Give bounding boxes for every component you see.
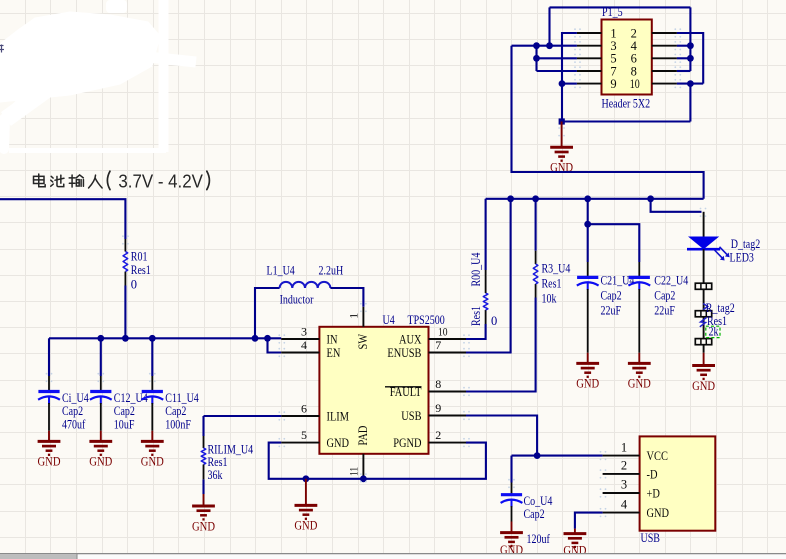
- wire ILIM: [204, 415, 282, 417]
- wire inductor right lead to SW: [330, 288, 363, 307]
- svg-text:USB: USB: [641, 531, 661, 545]
- wire C11_U4 vertical: [151, 338, 153, 376]
- node upper bus junctions: [507, 195, 514, 202]
- wire AUX to R00_U4: [466, 324, 486, 339]
- svg-text:3.7V - 4.2V: 3.7V - 4.2V: [118, 171, 203, 192]
- wire pin4 EN pin: [281, 352, 319, 354]
- op-amp U1 : IC U4 TPS2500 body: [319, 327, 428, 454]
- wire battery input net: [0, 199, 125, 239]
- capacitor Ci_U4 labels: [62, 391, 89, 432]
- capacitor C11_U4 plates: [141, 392, 163, 405]
- ground USB: [563, 534, 586, 558]
- wire header row10: [677, 83, 703, 85]
- wire C12_U4 vertical: [100, 338, 102, 376]
- wire header rows 3-5-7 riser: [535, 46, 537, 71]
- svg-text:5: 5: [301, 428, 307, 442]
- wire LED anode lead: [703, 212, 705, 237]
- svg-text:Cap2: Cap2: [165, 404, 186, 418]
- wire USB gnd: [575, 513, 603, 529]
- node pin end grid markers: [46, 28, 707, 517]
- resistor R01: [123, 250, 151, 292]
- svg-text:Cap2: Cap2: [114, 404, 135, 418]
- svg-text:R3_U4: R3_U4: [542, 261, 571, 275]
- ground C11_U4: [141, 441, 164, 468]
- svg-text:Res1: Res1: [208, 455, 228, 469]
- svg-text:GND: GND: [294, 519, 317, 533]
- svg-text:120uf: 120uf: [527, 532, 551, 546]
- svg-text:2.2uH: 2.2uH: [319, 264, 344, 278]
- svg-text:470uf: 470uf: [62, 418, 86, 432]
- svg-text:Cap2: Cap2: [524, 507, 545, 521]
- wire C22 link: [588, 224, 640, 262]
- wire pin2 PGND pin: [429, 442, 467, 444]
- svg-text:100nF: 100nF: [165, 418, 191, 432]
- svg-text:SW: SW: [355, 333, 370, 349]
- ground C22_U4: [628, 363, 651, 390]
- scrollbar strip: [0, 554, 786, 559]
- capacitor C22_U4 plates: [628, 277, 650, 290]
- svg-text:R01: R01: [131, 250, 148, 264]
- wire USB net: [466, 416, 537, 456]
- wire R00_U4 to upper bus: [485, 199, 487, 270]
- svg-text:GND: GND: [628, 377, 651, 391]
- svg-text:Res1: Res1: [542, 276, 562, 290]
- resistor R3_U4: [533, 261, 571, 305]
- connector USB body: [640, 436, 716, 530]
- capacitor Co_U4 labels: [524, 494, 553, 546]
- wire header row7: [537, 70, 577, 72]
- erased white-out scribble: [0, 0, 196, 152]
- wire header row6: [677, 57, 691, 59]
- svg-text:Co_U4: Co_U4: [524, 494, 553, 508]
- wire upper bus: [486, 198, 704, 200]
- ground IC: [294, 505, 317, 532]
- svg-text:Inductor: Inductor: [280, 293, 315, 307]
- svg-text:9: 9: [610, 77, 616, 91]
- wire R01 lower lead to bus: [124, 286, 126, 339]
- svg-text:0: 0: [491, 314, 497, 328]
- svg-text:EN: EN: [327, 345, 341, 360]
- svg-text:0: 0: [131, 278, 137, 292]
- svg-text:6: 6: [301, 401, 307, 415]
- capacitor Co_U4 plates: [501, 495, 523, 508]
- svg-text:2: 2: [435, 428, 441, 442]
- wire GND-PGND net: [269, 443, 486, 479]
- wire R_tag2 to gnd: [703, 345, 705, 353]
- capacitor C12_U4 labels: [114, 391, 148, 432]
- wire header row3 to right bus: [512, 46, 704, 199]
- svg-text:GND: GND: [692, 379, 715, 393]
- label header pin numbers: [610, 26, 639, 91]
- wire FAULT riser: [466, 298, 536, 392]
- svg-text:Ci_U4: Ci_U4: [62, 391, 89, 405]
- wire header row3: [512, 45, 577, 47]
- svg-text:10uF: 10uF: [114, 418, 135, 432]
- wire EN drop: [268, 338, 282, 352]
- wire pin11 PAD pin: [362, 454, 364, 479]
- wire pin3 IN pin: [281, 338, 319, 340]
- svg-text:3: 3: [301, 324, 307, 338]
- svg-text:PAD: PAD: [355, 426, 370, 446]
- label USB pin names: [647, 448, 670, 520]
- wire header pin1: [562, 33, 577, 122]
- svg-text:36k: 36k: [208, 468, 224, 482]
- svg-text:1: 1: [621, 440, 627, 454]
- wire header row4: [677, 45, 691, 47]
- wire USB pins: [603, 455, 640, 457]
- svg-text:L1_U4: L1_U4: [267, 264, 296, 278]
- svg-text:Header 5X2: Header 5X2: [602, 96, 651, 110]
- svg-text:4: 4: [301, 338, 307, 352]
- wire pin6 ILIM pin: [281, 415, 319, 417]
- ground C21_U4: [576, 363, 599, 390]
- inductor L1_U4: [267, 264, 344, 307]
- svg-text:8: 8: [435, 377, 441, 391]
- wire inductor left lead: [255, 288, 280, 338]
- svg-text:GND: GND: [576, 377, 599, 391]
- wire RILIM drop: [202, 416, 204, 436]
- node gnd net junctions: [303, 475, 310, 482]
- wire pin1 SW pin: [362, 307, 364, 327]
- capacitor C12_U4 plates: [90, 392, 112, 405]
- svg-text:22uF: 22uF: [654, 304, 675, 318]
- svg-text:GND: GND: [141, 455, 164, 469]
- wire pin5 GND pin: [281, 442, 319, 444]
- capacitor Ci_U4 plates: [38, 392, 60, 405]
- wire header gnd collector: [689, 84, 691, 122]
- svg-text:U4: U4: [383, 313, 396, 327]
- resistor R00_U4: [469, 252, 497, 328]
- wire header pin2 riser: [677, 33, 703, 84]
- ground C12_U4: [89, 441, 112, 468]
- label U4 TPS2500: [383, 313, 445, 327]
- wire header row9: [562, 83, 577, 85]
- svg-text:3: 3: [621, 478, 627, 492]
- svg-text:Cap2: Cap2: [62, 404, 83, 418]
- wire header left pins: [577, 32, 602, 34]
- ground RILIM: [192, 506, 215, 533]
- wire header right riser pins 4-6-8: [689, 7, 691, 71]
- wire header row8: [677, 70, 691, 72]
- wire Co_U4 drop: [510, 456, 512, 483]
- resistor R_tag2 (box style): [695, 283, 734, 345]
- capacitor C21_U4 labels: [601, 274, 635, 318]
- ground header: [550, 147, 573, 174]
- svg-text:ILIM: ILIM: [327, 408, 350, 423]
- svg-text:2: 2: [621, 459, 627, 473]
- wire LED cathode to R_tag2: [703, 249, 705, 283]
- svg-text:GND: GND: [192, 519, 215, 533]
- node bus junctions: [97, 335, 104, 342]
- svg-text:R00_U4: R00_U4: [469, 252, 483, 286]
- svg-text:C22_U4: C22_U4: [654, 274, 688, 288]
- caption battery input 3.7V-4.2V: [34, 171, 210, 189]
- node C21/C22 tee: [584, 221, 591, 228]
- svg-text:1: 1: [347, 313, 361, 319]
- svg-text:GND: GND: [327, 435, 350, 450]
- svg-text:Res1: Res1: [131, 263, 151, 277]
- wire pin7 ENUSB pin: [429, 352, 467, 354]
- connector P1_5 Header 5X2 body: [602, 20, 652, 95]
- svg-text:R_tag2: R_tag2: [706, 301, 735, 315]
- svg-text:VCC: VCC: [647, 448, 668, 463]
- wire header row5: [537, 57, 577, 59]
- svg-text:C11_U4: C11_U4: [165, 391, 199, 405]
- ground Ci_U4: [38, 441, 61, 468]
- LED D_tag2 LED3: [687, 237, 760, 265]
- wire ENUSB riser: [466, 199, 511, 353]
- svg-text:GND: GND: [38, 455, 61, 469]
- svg-text:11: 11: [347, 467, 361, 476]
- svg-text:USB: USB: [401, 408, 421, 423]
- capacitor C21_U4 plates: [577, 277, 599, 290]
- svg-text:4: 4: [621, 497, 628, 511]
- svg-text:+D: +D: [647, 486, 660, 501]
- svg-text:Res1: Res1: [469, 306, 483, 326]
- svg-text:22uF: 22uF: [601, 304, 622, 318]
- svg-text:-D: -D: [647, 466, 658, 481]
- svg-text:Cap2: Cap2: [654, 289, 675, 303]
- svg-text:9: 9: [435, 401, 441, 415]
- wire pin10 AUX pin: [429, 338, 467, 340]
- resistor RILIM_U4: [201, 443, 253, 482]
- wire header top bus: [550, 6, 691, 8]
- wire LED jog: [651, 199, 702, 212]
- wire pin8 FAULT pin: [429, 391, 467, 393]
- wire pin9 USB pin: [429, 415, 467, 417]
- svg-text:LED3: LED3: [730, 251, 754, 265]
- capacitor C11_U4 labels: [165, 391, 199, 432]
- capacitor C22_U4 labels: [654, 274, 688, 318]
- ground Co_U4: [500, 533, 523, 558]
- node header gnd junction: [559, 118, 565, 124]
- svg-text:GND: GND: [647, 505, 670, 520]
- wire header right pins: [652, 32, 677, 34]
- wire C21 drop: [587, 199, 589, 262]
- svg-text:ENUSB: ENUSB: [387, 345, 421, 360]
- svg-text:GND: GND: [89, 455, 112, 469]
- label IC pin numbers: [301, 313, 448, 476]
- label USB pin numbers: [621, 440, 628, 511]
- svg-text:Cap2: Cap2: [601, 289, 622, 303]
- svg-text:10: 10: [438, 324, 448, 338]
- svg-text:10: 10: [630, 77, 640, 91]
- svg-text:10k: 10k: [542, 291, 558, 305]
- svg-text:PGND: PGND: [393, 435, 421, 450]
- label IC pin names: [327, 331, 422, 450]
- wire input bus: [49, 337, 281, 339]
- svg-text:7: 7: [435, 338, 441, 352]
- wire Ci_U4 vertical: [48, 338, 50, 376]
- ground LED: [692, 366, 715, 393]
- svg-text:D_tag2: D_tag2: [731, 237, 760, 251]
